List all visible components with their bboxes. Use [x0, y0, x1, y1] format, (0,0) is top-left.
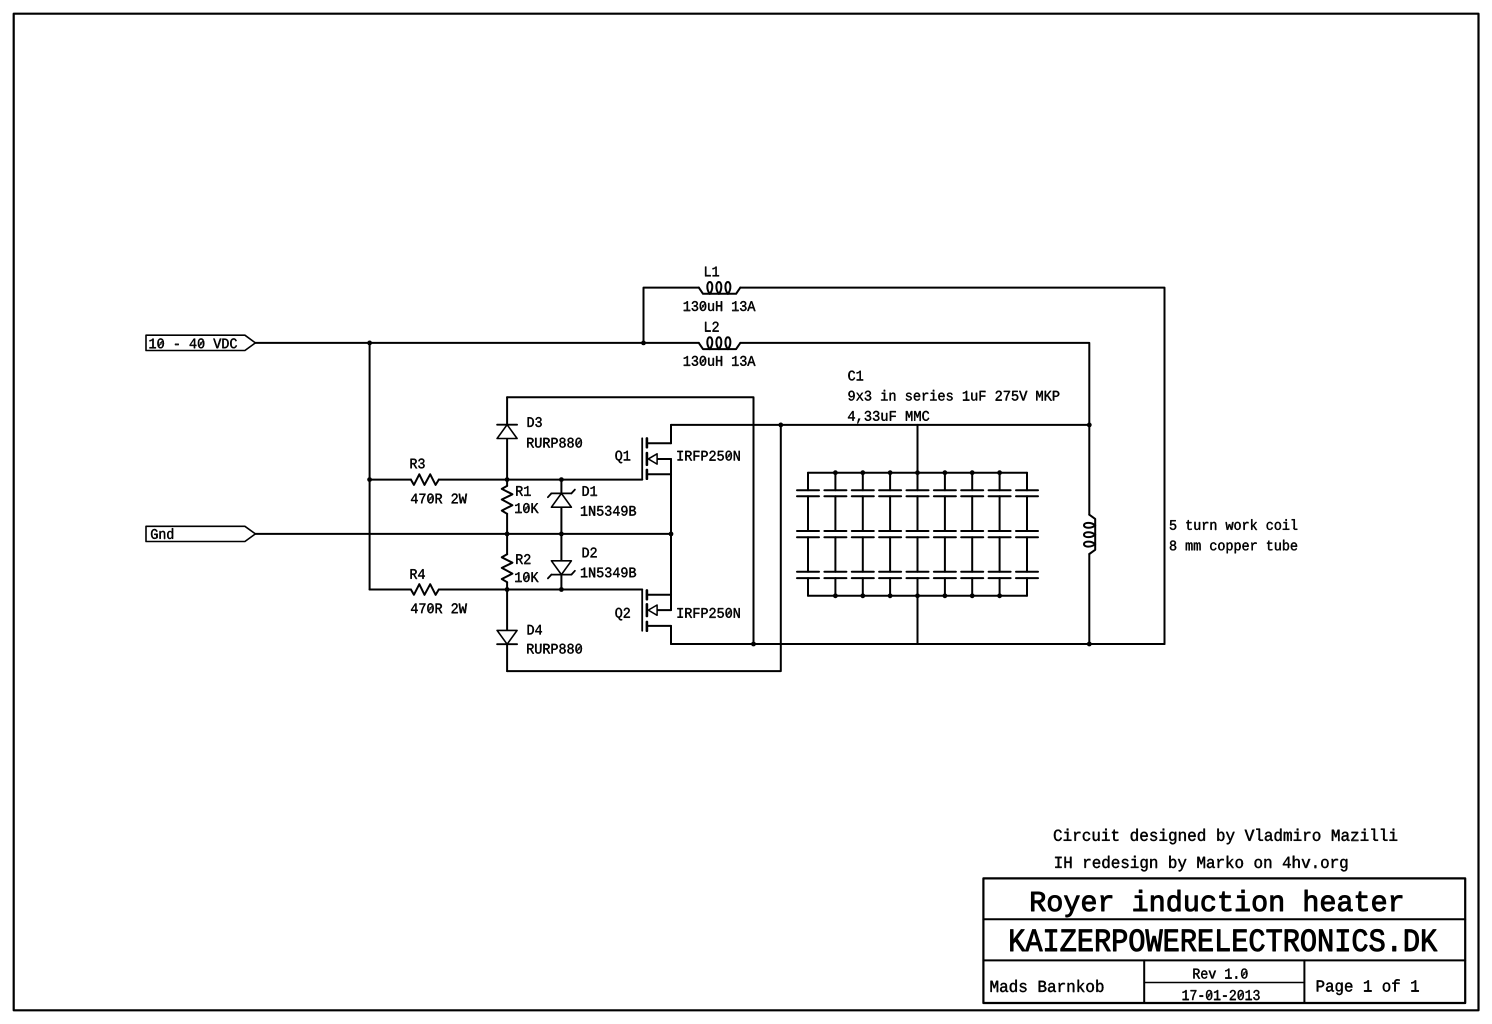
wire D3 leads	[506, 397, 508, 479]
label D1 designator	[583, 486, 597, 496]
net flag VDC input	[146, 335, 255, 350]
wire D1 leads	[560, 480, 562, 534]
label Q2 part	[678, 608, 740, 618]
junction gnd / R1 R2	[505, 532, 510, 537]
junction gate row / D3 / R1	[505, 477, 510, 482]
junction gate row / D1	[559, 477, 564, 482]
label D4 designator	[528, 625, 542, 635]
junction VDC / L1 branch	[641, 341, 646, 346]
junction VDC / bias divider	[367, 341, 372, 346]
label R2 value	[515, 572, 538, 582]
C1 column 6 (3 capacitors in series)	[934, 473, 956, 596]
net flag Gnd	[146, 526, 255, 541]
junction bottom rail / work coil	[1087, 642, 1092, 647]
label L2 designator	[705, 322, 719, 332]
label Q2 designator	[615, 608, 630, 621]
label L1 value	[684, 301, 756, 311]
capacitor bank C1	[797, 470, 1038, 598]
wire feedback A (D3 top to Q2 drain)	[507, 397, 753, 644]
label Q1 designator	[615, 451, 630, 464]
wire ground rail	[255, 533, 671, 535]
C1 column 2 (3 capacitors in series)	[824, 473, 846, 596]
wire Q2 source to gnd	[670, 534, 672, 610]
wire R2 leads	[506, 534, 508, 590]
C1 column 1 (3 capacitors in series)	[797, 473, 819, 596]
C1 column 4 (3 capacitors in series)	[879, 473, 901, 596]
inductor L1	[699, 282, 741, 294]
label R3 value	[411, 494, 467, 504]
resistor R2	[502, 554, 513, 582]
C1 column 9 (3 capacitors in series)	[1016, 473, 1038, 596]
label R1 designator	[516, 486, 530, 496]
C1 bottom bus junctions	[833, 593, 1002, 598]
label R4 designator	[411, 569, 425, 579]
C1 column 3 (3 capacitors in series)	[852, 473, 874, 596]
zener diode D1	[548, 490, 575, 508]
junction bias divider / R3 gate row	[367, 477, 372, 482]
junction top rail / feedback B	[778, 423, 783, 428]
wire tank top rail	[671, 424, 1089, 426]
label R2 designator	[516, 554, 530, 564]
wire bias divider vertical	[369, 343, 371, 590]
junction gnd / D1 D2	[559, 532, 564, 537]
junction gate row / D2	[559, 587, 564, 592]
wire Q2 drain lead	[670, 626, 672, 644]
C1 column 8 (3 capacitors in series)	[989, 473, 1011, 596]
label C1 value line2	[848, 411, 929, 423]
wire L2 to tank top rail	[740, 343, 1089, 425]
label L1 designator	[705, 267, 719, 277]
label D2 designator	[583, 548, 597, 558]
wire L1 branch	[644, 288, 699, 343]
wire work coil bottom lead	[1088, 554, 1090, 644]
wire Q1 drain lead	[670, 425, 672, 443]
label C1 designator	[848, 371, 863, 381]
label R4 value	[411, 603, 467, 613]
wire work coil top lead	[1088, 425, 1090, 515]
wire D2 leads	[560, 534, 562, 590]
diode D4	[497, 630, 517, 644]
wire VDC rail	[255, 342, 698, 344]
inductor work coil	[1084, 515, 1095, 554]
label D3 value	[527, 438, 582, 448]
label R3 designator	[411, 459, 425, 469]
wire L1 to tank bottom (right side)	[740, 288, 1164, 644]
label D4 value	[527, 644, 582, 654]
label D1 value	[581, 506, 636, 516]
label D3 designator	[528, 417, 542, 427]
junction bottom rail / feedback A	[751, 642, 756, 647]
label net Gnd	[151, 528, 173, 539]
resistor R3	[411, 474, 439, 485]
wire Q2 gate row	[370, 589, 643, 591]
label work coil line2	[1170, 540, 1297, 554]
wire Q1 source to gnd	[670, 459, 672, 534]
wire R1 leads	[506, 480, 508, 534]
resistor R1	[502, 486, 513, 514]
junction gate row / R2 / D4	[505, 587, 510, 592]
junction gnd / Q1 Q2 sources	[669, 532, 674, 537]
label C1 value line1	[848, 390, 1059, 401]
label D2 value	[581, 567, 636, 577]
C1 column 5 (3 capacitors in series)	[907, 473, 929, 596]
transistor Q2	[642, 590, 671, 631]
zener diode D2	[548, 561, 575, 579]
wire feedback B (D4 bottom to Q1 drain)	[507, 425, 781, 671]
label net VDC	[150, 338, 237, 348]
label Q1 part	[678, 451, 740, 461]
wire Q1 gate row	[370, 479, 643, 481]
wire tank bottom rail	[671, 643, 1165, 645]
C1 top bus junctions	[833, 470, 1002, 475]
C1 top bus	[808, 472, 1027, 474]
C1 column 7 (3 capacitors in series)	[961, 473, 983, 596]
label L2 value	[684, 356, 756, 366]
C1 bottom bus	[808, 595, 1027, 597]
wire C1 center column to bottom rail	[917, 596, 919, 644]
label R1 value	[515, 503, 538, 513]
wire C1 center column to top rail	[917, 425, 919, 473]
junction top rail / L2 feed	[1087, 423, 1092, 428]
transistor Q1	[642, 438, 671, 479]
wire D4 leads	[506, 590, 508, 672]
diode D3	[497, 425, 517, 439]
label work coil line1	[1170, 519, 1298, 530]
resistor R4	[411, 584, 439, 595]
inductor L2	[699, 337, 741, 349]
